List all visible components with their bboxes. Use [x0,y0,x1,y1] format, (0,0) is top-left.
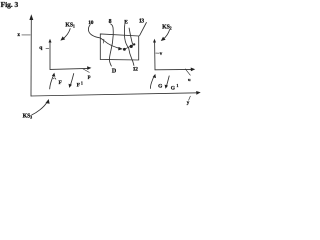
svg-text:Fig. 3: Fig. 3 [1,0,19,9]
start tick on trajectory [102,39,105,43]
curve 8 through box down to D [109,24,113,66]
vector arrow G (up) [150,76,154,89]
KS1 q-axis (vertical) [49,42,51,69]
svg-text:u: u [188,77,191,82]
svg-text:12: 12 [133,67,138,73]
vector arrow F (up) [50,75,54,89]
svg-text:1: 1 [81,82,83,86]
trajectory dots [124,44,134,49]
trajectory curve from 10 into box [88,25,120,49]
svg-text:D: D [112,69,117,75]
KS2 v-axis (vertical) [154,42,156,70]
curve E down to dots [124,24,128,48]
KS2 u-axis (horizontal) [155,68,192,70]
trajectory tail to 12 [129,48,134,65]
svg-text:p: p [88,75,91,80]
vector arrow F1 (down) [70,74,73,86]
svg-text:10: 10 [88,20,93,26]
svg-text:13: 13 [139,19,144,25]
svg-text:1: 1 [177,84,179,88]
leader 13 to box corner [140,23,147,36]
KS3 y-axis (horizontal, bottom) [31,93,198,96]
KS3 x-axis (vertical, left) [30,18,32,97]
KS1 p-axis (horizontal) [50,68,88,69]
unlabeled curve to third dot [129,28,133,45]
svg-text:x: x [17,32,20,38]
svg-text:1: 1 [73,24,75,29]
F curl [53,78,56,79]
vector arrow G1 (down) [166,76,169,87]
detail box [100,34,138,60]
